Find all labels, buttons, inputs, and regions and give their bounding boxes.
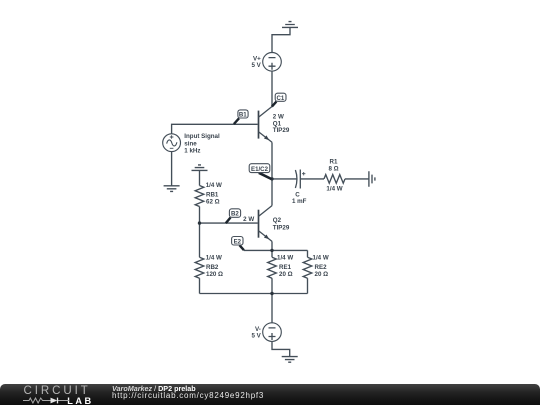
svg-text:Input Signal: Input Signal: [184, 133, 220, 140]
svg-text:1/4 W: 1/4 W: [313, 255, 329, 262]
svg-text:1 mF: 1 mF: [292, 198, 307, 205]
svg-text:20 Ω: 20 Ω: [279, 271, 293, 278]
svg-text:RE1: RE1: [279, 264, 292, 271]
svg-text:20 Ω: 20 Ω: [315, 271, 329, 278]
svg-text:1/4 W: 1/4 W: [206, 255, 222, 262]
svg-text:E1/C2: E1/C2: [251, 166, 269, 173]
svg-text:B1: B1: [239, 112, 247, 119]
svg-text:1/4 W: 1/4 W: [277, 255, 293, 262]
svg-text:62 Ω: 62 Ω: [206, 199, 220, 206]
svg-text:sine: sine: [184, 140, 197, 147]
svg-text:RB2: RB2: [206, 264, 219, 271]
svg-text:1/4 W: 1/4 W: [326, 186, 342, 193]
svg-text:8 Ω: 8 Ω: [328, 166, 338, 173]
svg-text:1/4 W: 1/4 W: [206, 182, 222, 189]
svg-text:RB1: RB1: [206, 191, 219, 198]
svg-text:Q2: Q2: [273, 217, 282, 224]
svg-text:5 V: 5 V: [252, 62, 262, 69]
svg-text:C1: C1: [277, 95, 285, 102]
svg-text:B2: B2: [231, 211, 239, 218]
svg-text:5 V: 5 V: [252, 333, 262, 340]
svg-text:TIP29: TIP29: [273, 224, 290, 231]
svg-text:TIP29: TIP29: [273, 127, 290, 134]
svg-text:2 W: 2 W: [243, 216, 254, 223]
svg-text:120 Ω: 120 Ω: [206, 271, 223, 278]
svg-text:RE2: RE2: [315, 264, 328, 271]
svg-text:1 kHz: 1 kHz: [184, 148, 200, 155]
svg-text:E2: E2: [234, 238, 242, 245]
